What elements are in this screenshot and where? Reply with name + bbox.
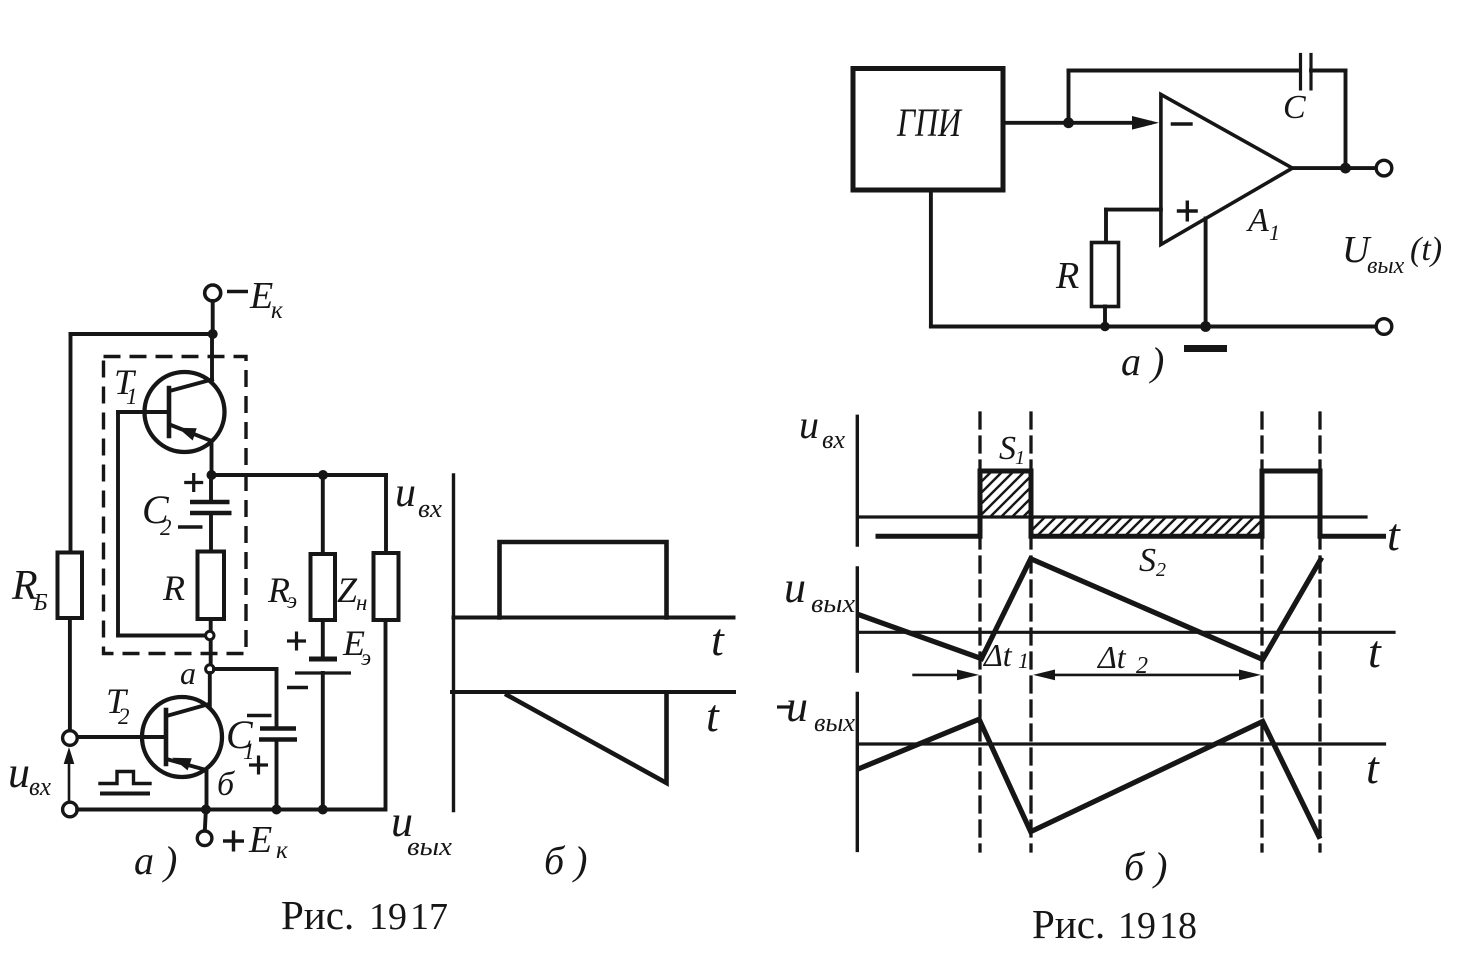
- svg-text:вх: вх: [822, 425, 845, 454]
- svg-text:Z: Z: [337, 570, 358, 610]
- svg-text:Рис.: Рис.: [1032, 901, 1105, 947]
- trace -u vyx: [860, 719, 1319, 836]
- input arrow: [68, 758, 71, 801]
- bottom rail (fig18): [931, 325, 1376, 329]
- battery Ee: [309, 657, 337, 662]
- svg-text:19: 19: [1118, 905, 1156, 947]
- resistor RB: [58, 553, 83, 619]
- svg-text:t: t: [706, 690, 720, 741]
- svg-text:2: 2: [1156, 559, 1166, 581]
- svg-text:E: E: [248, 819, 272, 861]
- svg-text:1: 1: [1015, 447, 1025, 469]
- resistor Zn: [374, 553, 399, 620]
- t axis 2 (fig17): [452, 690, 734, 694]
- trace u vyx: [860, 559, 1321, 660]
- arrow dt1: [914, 674, 972, 677]
- dashed box (one-shot outline): [104, 357, 247, 654]
- svg-text:2: 2: [1136, 653, 1148, 679]
- wire R bottom: [209, 619, 213, 665]
- svg-text:а: а: [180, 655, 196, 691]
- label -Ek: [227, 290, 248, 294]
- feedback wire up/top: [1067, 71, 1071, 123]
- svg-text:2: 2: [118, 704, 130, 729]
- t axis 1 (fig17): [454, 616, 734, 620]
- arrow dt2: [1040, 674, 1254, 677]
- pulse icon: [100, 772, 150, 784]
- transistor T1: [145, 372, 225, 452]
- wire plus input: [1106, 208, 1161, 212]
- waveform axis (fig17 b): [452, 475, 455, 811]
- wire T1 base feedback: [116, 412, 120, 636]
- svg-text:вых: вых: [811, 589, 855, 618]
- capacitor C: [1299, 53, 1302, 91]
- svg-text:t: t: [711, 614, 725, 665]
- svg-text:R: R: [162, 568, 185, 608]
- S1 hatch: [980, 471, 1031, 517]
- op-amp A1: [1161, 94, 1293, 244]
- svg-text:u: u: [8, 748, 30, 797]
- terminal output upper: [1376, 160, 1392, 176]
- svg-text:2: 2: [160, 515, 172, 540]
- svg-text:t: t: [1368, 626, 1382, 677]
- input terminal upper: [63, 731, 78, 746]
- input terminal lower: [63, 802, 78, 817]
- svg-text:к: к: [271, 297, 283, 324]
- svg-text:Δt: Δt: [982, 637, 1013, 673]
- trace u vx: [878, 471, 1384, 536]
- dashed time markers: [978, 413, 981, 851]
- pulse trace (fig17): [500, 542, 667, 618]
- wire node a to C1: [214, 667, 277, 671]
- svg-text:17: 17: [410, 896, 448, 938]
- svg-text:б: б: [217, 766, 236, 803]
- wire GPI bottom: [929, 190, 933, 327]
- svg-text:а ): а ): [1121, 339, 1164, 384]
- resistor R (fig18): [1092, 243, 1119, 307]
- svg-text:19: 19: [369, 896, 407, 938]
- svg-text:1: 1: [243, 739, 255, 764]
- axis uvyx (fig18): [856, 568, 859, 671]
- svg-text:1: 1: [126, 384, 138, 409]
- node C1/rail: [272, 805, 282, 815]
- wire GPI output: [1003, 121, 1150, 125]
- svg-text:1: 1: [1018, 648, 1029, 673]
- wire op-amp ground leg: [1204, 219, 1208, 327]
- ground symbol: [1184, 345, 1227, 352]
- block GPI: [853, 69, 1003, 191]
- svg-text:u: u: [395, 470, 416, 516]
- svg-text:Рис.: Рис.: [281, 892, 354, 938]
- svg-text:Б: Б: [33, 590, 48, 616]
- wire terminal to top junction: [211, 301, 215, 334]
- node emitter/rail: [201, 805, 211, 815]
- svg-text:S: S: [999, 430, 1016, 467]
- t axis -u vyx: [858, 742, 1385, 745]
- arrowhead into op-amp: [1132, 116, 1159, 130]
- svg-text:C: C: [1283, 89, 1306, 126]
- t axis u vx: [858, 515, 1366, 518]
- svg-text:вых: вых: [1367, 253, 1405, 279]
- axis uvx (fig18): [856, 416, 859, 545]
- svg-text:18: 18: [1159, 905, 1197, 947]
- svg-text:u: u: [799, 402, 819, 447]
- svg-text:б ): б ): [1124, 844, 1167, 889]
- resistor Re: [311, 554, 336, 620]
- node GPI output branch: [1063, 117, 1074, 128]
- wire uvx top line: [212, 473, 387, 477]
- svg-text:э: э: [287, 588, 297, 613]
- svg-text:S: S: [1139, 542, 1156, 579]
- resistor R: [198, 552, 225, 620]
- svg-text:н: н: [356, 590, 367, 615]
- terminal +Ek: [205, 810, 206, 832]
- svg-text:1: 1: [1269, 220, 1280, 245]
- svg-text:Δt: Δt: [1096, 639, 1127, 675]
- svg-text:вх: вх: [29, 772, 51, 801]
- svg-text:б ): б ): [544, 838, 587, 883]
- svg-text:u: u: [784, 563, 806, 612]
- wire RB top: [69, 334, 73, 553]
- node Ee/rail: [318, 805, 328, 815]
- svg-text:t: t: [1366, 742, 1380, 793]
- svg-text:вых: вых: [407, 832, 453, 861]
- svg-text:(t): (t): [1410, 231, 1442, 268]
- t axis u vyx: [858, 631, 1394, 634]
- svg-text:а ): а ): [134, 838, 177, 883]
- svg-text:A: A: [1246, 202, 1269, 239]
- capacitor C1: [260, 726, 296, 731]
- axis -uvyx (fig18): [856, 693, 859, 850]
- node below R: [206, 631, 214, 639]
- svg-text:э: э: [361, 645, 371, 670]
- capacitor C2: [190, 500, 230, 505]
- svg-text:E: E: [249, 275, 273, 317]
- svg-text:t: t: [1387, 509, 1401, 560]
- transistor T2: [142, 697, 222, 777]
- S2 hatch: [1031, 517, 1262, 536]
- node a: [206, 665, 214, 673]
- svg-text:вх: вх: [418, 494, 442, 523]
- node: T1 emitter / uvx line: [207, 470, 217, 480]
- svg-text:u: u: [786, 682, 808, 731]
- wire R bottom: [1103, 306, 1107, 326]
- svg-text:R: R: [1055, 255, 1079, 297]
- node: top junction: [208, 329, 218, 339]
- ramp trace (fig17): [507, 693, 667, 783]
- node output/feedback: [1340, 163, 1351, 174]
- svg-text:к: к: [276, 837, 288, 864]
- svg-text:ГПИ: ГПИ: [896, 100, 962, 145]
- wire node a to T2 collector: [208, 673, 212, 707]
- terminal -Ek: [205, 285, 221, 301]
- wire to Zn top: [384, 475, 388, 553]
- svg-text:вых: вых: [814, 708, 855, 737]
- output wire: [1292, 166, 1376, 170]
- terminal output lower: [1376, 319, 1392, 335]
- bottom rail: [77, 808, 384, 812]
- wire RB bottom to input terminal: [68, 618, 72, 731]
- wire top junction to RB column: [71, 332, 213, 336]
